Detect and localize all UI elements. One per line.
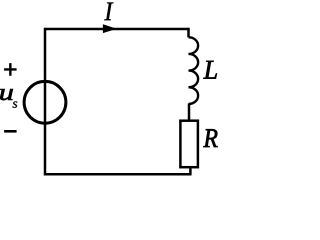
wire stub inductor-resistor: [188, 104, 191, 121]
wire top: [45, 28, 189, 31]
voltage source us: [24, 81, 66, 123]
wire left: [44, 28, 47, 176]
label u: [0, 89, 12, 100]
wire right top stub: [187, 28, 190, 38]
minus polarity mark: [4, 130, 17, 133]
label s subscript: [13, 101, 18, 107]
label L: [203, 61, 216, 79]
resistor R: [180, 121, 198, 168]
current arrow I: [103, 24, 117, 33]
label I: [104, 2, 113, 20]
label R: [203, 129, 217, 147]
inductor L: [189, 37, 199, 104]
wire bottom: [45, 173, 192, 176]
plus polarity mark: [4, 63, 17, 76]
wire resistor bottom stub: [189, 167, 192, 175]
